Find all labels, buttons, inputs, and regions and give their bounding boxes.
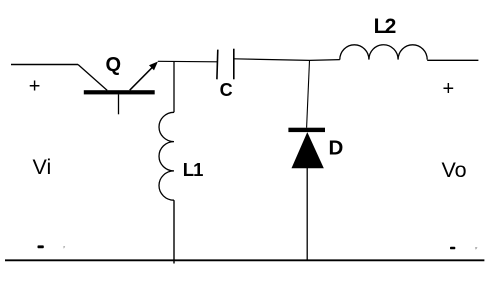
wire: junction down to L1: [173, 61, 175, 112]
inductor L2: [340, 45, 427, 60]
ground rail (bottom common): [5, 259, 484, 261]
wire: capacitor to diode node: [234, 59, 310, 61]
svg-text:L1: L1: [183, 159, 203, 180]
svg-text:Q: Q: [106, 54, 122, 76]
wire: L1 to bottom rail: [173, 200, 175, 263]
wire: diode node to L2: [310, 59, 340, 62]
wire: collector node to capacitor: [158, 60, 218, 63]
transistor Q: [78, 62, 158, 115]
wire: input top-left horizontal: [11, 64, 78, 66]
wire: L2 to output: [427, 59, 478, 61]
label - (output polarity): [450, 247, 455, 250]
svg-text:Vo: Vo: [442, 158, 467, 182]
svg-text:+: +: [29, 76, 41, 98]
wire: diode bottom lead to rail: [306, 168, 308, 261]
svg-text:D: D: [329, 137, 344, 160]
svg-text:C: C: [220, 80, 233, 100]
svg-text:Vi: Vi: [33, 155, 52, 179]
svg-text:L2: L2: [374, 15, 396, 38]
wire: diode top lead: [307, 60, 310, 127]
label - (input polarity): [38, 245, 44, 248]
capacitor C: [217, 49, 234, 80]
diode D: [288, 128, 325, 169]
svg-text:+: +: [442, 78, 454, 100]
inductor L1: [159, 112, 174, 200]
